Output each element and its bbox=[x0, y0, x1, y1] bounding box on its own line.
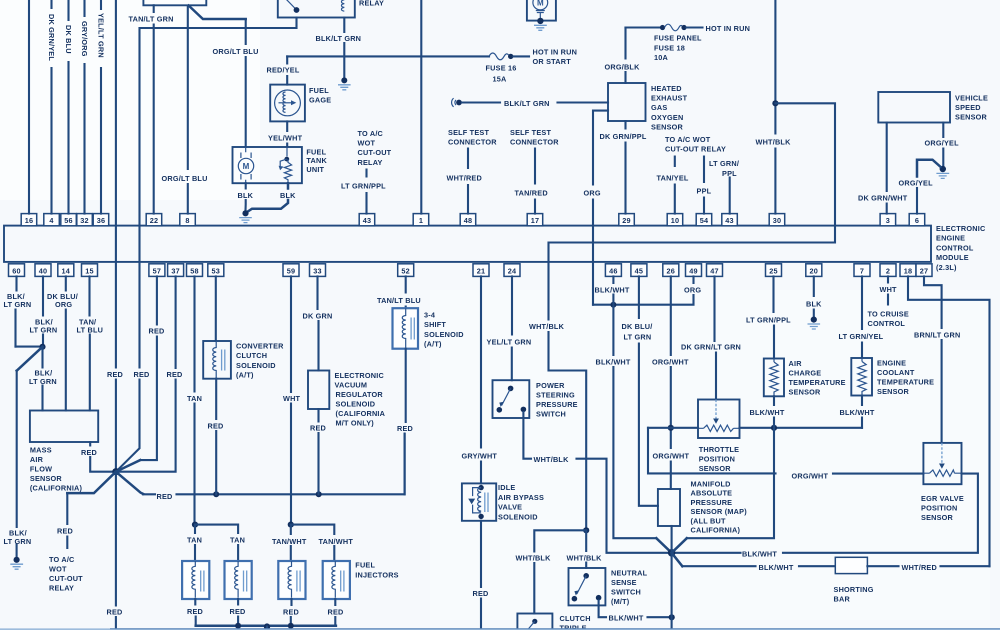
svg-text:15: 15 bbox=[85, 266, 94, 275]
fuel gage U1 box bbox=[270, 85, 305, 122]
svg-text:43: 43 bbox=[363, 216, 372, 225]
svg-text:YEL/LT GRN: YEL/LT GRN bbox=[96, 13, 105, 58]
svg-text:INJECTORS: INJECTORS bbox=[355, 571, 398, 580]
svg-text:2: 2 bbox=[886, 266, 890, 275]
svg-text:VALVE: VALVE bbox=[498, 503, 522, 512]
svg-text:40: 40 bbox=[39, 266, 48, 275]
svg-text:YEL/LT GRN: YEL/LT GRN bbox=[487, 337, 532, 346]
ECM connector pins row 1 (top) bbox=[21, 214, 37, 226]
IAB clamp diode bbox=[473, 488, 482, 513]
junction dot NSS branch bbox=[583, 527, 589, 533]
wire RED injector 1 to bus bbox=[194, 599, 196, 626]
svg-text:48: 48 bbox=[464, 216, 473, 225]
svg-text:BRN/LT GRN: BRN/LT GRN bbox=[914, 331, 960, 340]
wire TAN/LT BLU pin15 into MAF bbox=[88, 276, 90, 410]
svg-text:46: 46 bbox=[609, 266, 618, 275]
label FUSE 16 15A bbox=[486, 64, 517, 84]
wire pin32 GRY/ORG bbox=[83, 0, 85, 214]
wire RED star down to page edge bbox=[115, 472, 117, 630]
label FUEL INJECTORS bbox=[355, 561, 398, 580]
svg-text:GAGE: GAGE bbox=[309, 96, 331, 105]
svg-text:26: 26 bbox=[667, 266, 676, 275]
svg-text:TAN/LT BLU: TAN/LT BLU bbox=[377, 296, 421, 305]
svg-text:LT GRN/PPL: LT GRN/PPL bbox=[341, 182, 386, 191]
motor M2 box (cut at top) bbox=[527, 0, 556, 21]
junction dot injector pair 3/4 bbox=[288, 522, 294, 528]
svg-text:SENSOR: SENSOR bbox=[921, 513, 954, 522]
svg-text:BLK/LT GRN: BLK/LT GRN bbox=[316, 34, 362, 43]
svg-text:22: 22 bbox=[150, 216, 159, 225]
wire WHT/BLK PSP to X junction bbox=[523, 412, 668, 553]
label SELF TEST CONNECTOR 1 bbox=[448, 128, 497, 147]
wire X junction south drop bbox=[671, 553, 673, 630]
fuel injector 1 box bbox=[182, 561, 209, 599]
svg-text:16: 16 bbox=[25, 216, 34, 225]
junction node A (pins 60+40) bbox=[16, 346, 43, 348]
wire WHT pin2 to cruise control bbox=[887, 276, 889, 304]
svg-text:10A: 10A bbox=[654, 53, 669, 62]
ground G1 below relay coil bbox=[341, 77, 347, 83]
svg-text:CUT-OUT: CUT-OUT bbox=[358, 148, 392, 157]
svg-text:25: 25 bbox=[769, 266, 778, 275]
label LT GRN/ PPL bbox=[709, 159, 739, 178]
svg-text:SOLENOID: SOLENOID bbox=[236, 361, 276, 370]
svg-text:EXHAUST: EXHAUST bbox=[651, 94, 688, 103]
wire WHT/BLK riser to pin30 bbox=[774, 0, 776, 214]
label SHORTING BAR bbox=[834, 585, 874, 604]
svg-text:WHT: WHT bbox=[283, 394, 301, 403]
svg-text:PPL: PPL bbox=[697, 187, 712, 196]
wire to HEGO left pin bbox=[558, 101, 609, 103]
svg-text:CONVERTER: CONVERTER bbox=[236, 341, 284, 350]
svg-text:DK GRN/YEL: DK GRN/YEL bbox=[47, 14, 56, 61]
svg-text:4: 4 bbox=[49, 216, 54, 225]
wire DK BLU/LT GRN pin45 to MAP bbox=[639, 276, 658, 505]
label FUEL GAGE bbox=[309, 86, 331, 105]
junction dot on X drop bbox=[669, 614, 675, 620]
svg-text:15A: 15A bbox=[493, 75, 508, 84]
label VEHICLE SPEED SENSOR bbox=[955, 93, 988, 121]
wire BLK/WHT X to shorting bar bbox=[672, 553, 683, 566]
wire RED below 3-4 solenoid bbox=[405, 349, 406, 495]
svg-text:CHARGE: CHARGE bbox=[789, 369, 822, 378]
svg-text:CONTROL: CONTROL bbox=[936, 243, 974, 252]
svg-text:29: 29 bbox=[622, 216, 631, 225]
svg-text:(ALL BUT: (ALL BUT bbox=[691, 516, 726, 525]
ground G6 pin20 bbox=[811, 317, 817, 323]
svg-text:WHT/RED: WHT/RED bbox=[902, 563, 937, 572]
wire WHT/BLK to clutch switch bbox=[534, 530, 586, 613]
wire WHT/RED to pin48 bbox=[467, 149, 469, 214]
fuse panel fuse18 feed line bbox=[626, 26, 661, 28]
svg-text:57: 57 bbox=[153, 266, 162, 275]
wire BRN/LT GRN pin27 to EGR bbox=[924, 276, 942, 443]
svg-text:SHIFT: SHIFT bbox=[424, 320, 446, 329]
3-4 shift solenoid box bbox=[393, 308, 419, 349]
wire BLK/WHT NSS to X drop bbox=[599, 600, 669, 617]
wire BLK/WHT ECT to return rail bbox=[861, 396, 863, 428]
wire ORG/LT BLU to pin8 bbox=[187, 6, 189, 214]
label MASS AIR FLOW SENSOR (CALIFORNIA) bbox=[30, 446, 83, 493]
junction dot ACT return bbox=[771, 425, 777, 431]
svg-text:SHORTING: SHORTING bbox=[834, 585, 874, 594]
svg-text:BLK/WHT: BLK/WHT bbox=[750, 408, 785, 417]
svg-text:LT BLU: LT BLU bbox=[77, 326, 104, 335]
label TO A/C WOT CUT-OUT RELAY (right) bbox=[665, 135, 726, 154]
svg-text:8: 8 bbox=[185, 216, 189, 225]
svg-text:STEERING: STEERING bbox=[536, 391, 575, 400]
svg-text:RED: RED bbox=[310, 423, 326, 432]
svg-text:TO A/C: TO A/C bbox=[49, 555, 75, 564]
svg-text:53: 53 bbox=[212, 266, 221, 275]
X junction node C (signal return common) bbox=[668, 549, 676, 557]
neutral sense switch box bbox=[569, 568, 606, 605]
wire PPL to pin54 bbox=[703, 157, 705, 214]
wire TAN to injector 2 bbox=[195, 525, 238, 561]
svg-text:CALIFORNIA): CALIFORNIA) bbox=[691, 526, 741, 535]
svg-text:CLUTCH: CLUTCH bbox=[560, 614, 591, 623]
svg-text:DK GRN: DK GRN bbox=[303, 311, 333, 320]
svg-text:RED: RED bbox=[107, 608, 123, 617]
label MANIFOLD ABSOLUTE PRESSURE SENSOR (MAP) (ALL BUT CALIFORNIA) bbox=[691, 480, 748, 535]
svg-text:TAN: TAN bbox=[187, 394, 202, 403]
svg-text:(A/T): (A/T) bbox=[236, 371, 254, 380]
svg-text:SENSOR: SENSOR bbox=[30, 474, 63, 483]
svg-text:24: 24 bbox=[508, 266, 517, 275]
svg-text:WOT: WOT bbox=[358, 139, 376, 148]
svg-text:ORG/WHT: ORG/WHT bbox=[792, 472, 829, 481]
svg-text:37: 37 bbox=[171, 266, 180, 275]
wire RED injector 3 to bus bbox=[290, 599, 293, 626]
wire pin18 to shorting bar WHT/RED bbox=[908, 276, 990, 566]
svg-text:SENSOR: SENSOR bbox=[651, 122, 684, 131]
svg-text:LT GRN/YEL: LT GRN/YEL bbox=[839, 332, 884, 341]
clutch triple switch box (cut at bottom) bbox=[517, 614, 552, 630]
svg-text:SENSOR: SENSOR bbox=[789, 388, 822, 397]
wire BLK/WHT pin46 down to X junction bbox=[613, 276, 656, 538]
svg-text:WHT/BLK: WHT/BLK bbox=[534, 455, 570, 464]
svg-text:TAN/WHT: TAN/WHT bbox=[272, 537, 307, 546]
svg-text:DK GRN/LT GRN: DK GRN/LT GRN bbox=[681, 343, 741, 352]
label NEUTRAL SENSE SWITCH (M/T) bbox=[611, 569, 648, 607]
wire MAP to X junction bbox=[671, 526, 673, 553]
svg-text:VEHICLE: VEHICLE bbox=[955, 93, 988, 102]
svg-text:CUT-OUT RELAY: CUT-OUT RELAY bbox=[665, 145, 726, 154]
svg-text:SOLENOID: SOLENOID bbox=[336, 400, 376, 409]
svg-text:HOT IN RUN: HOT IN RUN bbox=[533, 48, 578, 57]
svg-text:32: 32 bbox=[80, 216, 89, 225]
svg-text:RED: RED bbox=[81, 448, 97, 457]
junction dot WHT/BLK branch bbox=[772, 100, 778, 106]
svg-text:PPL: PPL bbox=[722, 169, 737, 178]
svg-text:49: 49 bbox=[689, 266, 698, 275]
svg-text:BLK: BLK bbox=[280, 191, 296, 200]
svg-text:PRESSURE: PRESSURE bbox=[691, 498, 733, 507]
svg-text:RED: RED bbox=[473, 589, 489, 598]
svg-text:RED: RED bbox=[283, 607, 299, 616]
svg-text:TAN/YEL: TAN/YEL bbox=[657, 174, 689, 183]
svg-text:FUEL: FUEL bbox=[355, 561, 375, 570]
wire GRY/WHT pin21 to IAB solenoid bbox=[480, 276, 482, 483]
label DK BLU/ ORG bbox=[47, 292, 78, 309]
svg-text:FUSE PANEL: FUSE PANEL bbox=[654, 34, 702, 43]
fuse F2 10A squiggle bbox=[660, 25, 665, 30]
wire DK GRN/LT GRN pin47 to TPS bbox=[715, 276, 717, 399]
svg-text:ORG/YEL: ORG/YEL bbox=[899, 178, 934, 187]
label TAN/ LT BLU bbox=[77, 317, 104, 334]
svg-text:WHT/BLK: WHT/BLK bbox=[756, 138, 792, 147]
svg-text:TAN: TAN bbox=[230, 535, 245, 544]
wire long RED riser x116 bbox=[115, 0, 117, 472]
svg-text:SELF TEST: SELF TEST bbox=[448, 128, 489, 137]
wire to pin1 bbox=[420, 0, 422, 214]
wire RED star to A/C WOT cutout relay bbox=[67, 472, 116, 493]
wire pin56 DK BLU bbox=[67, 0, 69, 214]
svg-text:SOLENOID: SOLENOID bbox=[424, 330, 464, 339]
svg-text:SENSE: SENSE bbox=[611, 578, 637, 587]
svg-text:BLK/WHT: BLK/WHT bbox=[595, 285, 630, 294]
label FUEL TANK UNIT bbox=[306, 148, 327, 174]
junction dot TPS wiper bbox=[668, 425, 674, 431]
svg-text:ORG/WHT: ORG/WHT bbox=[653, 451, 690, 460]
wire BLK (pump) to ground bbox=[244, 183, 246, 210]
svg-text:RED: RED bbox=[107, 370, 123, 379]
svg-text:ORG/LT BLU: ORG/LT BLU bbox=[213, 47, 259, 56]
scan edge artifact at bottom bbox=[0, 628, 1000, 630]
wire WHT/BLK branch through ECM box to PSP bbox=[549, 103, 836, 527]
self test connector 1 pigtail bbox=[452, 98, 456, 107]
svg-text:TAN/LT GRN: TAN/LT GRN bbox=[129, 15, 174, 24]
svg-text:CONNECTOR: CONNECTOR bbox=[510, 138, 559, 147]
svg-text:OXYGEN: OXYGEN bbox=[651, 113, 683, 122]
svg-text:BLK/WHT: BLK/WHT bbox=[596, 357, 631, 366]
svg-text:WHT/BLK: WHT/BLK bbox=[567, 554, 603, 563]
svg-text:RED: RED bbox=[134, 370, 150, 379]
svg-text:LT GRN: LT GRN bbox=[30, 326, 58, 335]
svg-text:LT GRN: LT GRN bbox=[4, 537, 32, 546]
svg-text:ELECTRONIC: ELECTRONIC bbox=[936, 224, 986, 233]
wire RED below IAB off-page bbox=[480, 521, 482, 630]
relay K1 switch contact bbox=[284, 0, 296, 9]
svg-text:TAN: TAN bbox=[187, 535, 202, 544]
fuel tank unit box bbox=[233, 147, 302, 183]
svg-text:3-4: 3-4 bbox=[424, 311, 436, 320]
wire DK GRN/PPL HEGO to pin29 bbox=[624, 121, 626, 214]
wire RED/YEL drop to fuel gage bbox=[286, 56, 288, 84]
HEGO sensor box bbox=[608, 83, 646, 121]
svg-text:(CALIFORNIA): (CALIFORNIA) bbox=[30, 484, 83, 493]
wire ORG from HEGO down through ECM bbox=[593, 111, 608, 305]
svg-text:TAN/RED: TAN/RED bbox=[515, 189, 548, 198]
wire RED bus to solenoids bbox=[116, 472, 143, 494]
wire BLK (sender) to ground bbox=[246, 183, 289, 213]
svg-text:TO CRUISE: TO CRUISE bbox=[868, 310, 909, 319]
wire TAN/LT BLU pin52 to 3-4 shift solenoid bbox=[405, 276, 407, 308]
junction dot EVR RED bbox=[316, 491, 322, 497]
svg-text:RED: RED bbox=[167, 370, 183, 379]
svg-text:21: 21 bbox=[477, 266, 486, 275]
wire TAN/LT GRN to pin22 bbox=[153, 5, 155, 213]
ground G5 left bbox=[14, 557, 20, 563]
MAF sensor box bbox=[30, 411, 98, 443]
svg-text:BLK: BLK bbox=[238, 191, 254, 200]
power steering pressure switch box bbox=[493, 380, 530, 418]
wire ORG/YEL VSS to ground bbox=[942, 123, 944, 167]
label TO CRUISE CONTROL bbox=[868, 310, 909, 329]
wire TAN pin58 down bbox=[193, 276, 195, 521]
wire RED injector return bus bbox=[196, 625, 336, 628]
svg-text:56: 56 bbox=[64, 216, 73, 225]
wire pin16 vertical bbox=[28, 0, 30, 214]
svg-text:DK BLU/: DK BLU/ bbox=[622, 322, 653, 331]
fuel pump motor M with brackets bbox=[241, 147, 251, 183]
svg-text:RED: RED bbox=[149, 327, 165, 336]
wire RED MAF output bbox=[90, 442, 116, 472]
TPS throttle position sensor box bbox=[698, 400, 740, 439]
ground G4 VSS bbox=[940, 166, 946, 172]
svg-text:WHT/RED: WHT/RED bbox=[447, 174, 482, 183]
svg-text:WOT: WOT bbox=[49, 565, 67, 574]
wire DK GRN pin33 to EVR solenoid bbox=[318, 276, 319, 370]
svg-text:M/T ONLY): M/T ONLY) bbox=[336, 419, 375, 428]
svg-text:GAS: GAS bbox=[651, 103, 667, 112]
svg-text:HEATED: HEATED bbox=[651, 84, 682, 93]
wire YEL/LT GRN pin24 to PSP switch bbox=[511, 276, 513, 380]
svg-text:ELECTRONIC: ELECTRONIC bbox=[335, 371, 385, 380]
CCS coil element bbox=[213, 341, 216, 379]
svg-text:UNIT: UNIT bbox=[306, 165, 324, 174]
svg-text:M: M bbox=[537, 0, 544, 8]
svg-text:RED: RED bbox=[57, 527, 73, 536]
svg-text:33: 33 bbox=[313, 266, 322, 275]
svg-text:SELF TEST: SELF TEST bbox=[510, 128, 551, 137]
svg-text:14: 14 bbox=[62, 266, 71, 275]
svg-text:43: 43 bbox=[725, 216, 734, 225]
svg-text:SWITCH: SWITCH bbox=[536, 410, 566, 419]
VSS vehicle speed sensor box bbox=[878, 92, 950, 123]
svg-text:58: 58 bbox=[190, 266, 199, 275]
svg-text:BLK/WHT: BLK/WHT bbox=[609, 613, 644, 622]
wire EGR right terminal to X junction BLK/WHT bbox=[675, 474, 978, 553]
svg-text:RED: RED bbox=[397, 424, 413, 433]
svg-text:52: 52 bbox=[401, 266, 410, 275]
svg-text:TEMPERATURE: TEMPERATURE bbox=[789, 378, 846, 387]
svg-text:CUT-OUT: CUT-OUT bbox=[49, 574, 83, 583]
svg-text:36: 36 bbox=[97, 216, 106, 225]
fuel injector 3 box bbox=[278, 561, 305, 599]
svg-text:TO A/C WOT: TO A/C WOT bbox=[665, 135, 711, 144]
wire BLK/LT GRN relay coil feed bbox=[343, 18, 345, 78]
svg-text:BLK/WHT: BLK/WHT bbox=[840, 408, 875, 417]
svg-text:(A/T): (A/T) bbox=[424, 340, 442, 349]
ECM connector pins row 2 (bottom) bbox=[9, 264, 25, 277]
svg-text:EGR VALVE: EGR VALVE bbox=[921, 494, 964, 503]
svg-text:AIR: AIR bbox=[30, 455, 44, 464]
EVR solenoid box bbox=[308, 371, 329, 410]
svg-text:60: 60 bbox=[12, 266, 21, 275]
svg-text:NEUTRAL: NEUTRAL bbox=[611, 569, 648, 578]
wire LT GRN/PPL to pin43b bbox=[729, 178, 731, 214]
svg-text:ORG/BLK: ORG/BLK bbox=[605, 63, 641, 72]
wire LT GRN/PPL to pin43a bbox=[365, 170, 367, 214]
wire ORG link to pin49 with junction to pin46 wire bbox=[593, 276, 694, 304]
junction dot pin46 wire bbox=[610, 302, 616, 308]
label DK BLU/ LT GRN bbox=[622, 322, 653, 342]
wire RED below CCS bbox=[215, 379, 217, 495]
svg-text:3: 3 bbox=[886, 216, 890, 225]
svg-text:TANK: TANK bbox=[306, 156, 327, 165]
svg-text:CLUTCH: CLUTCH bbox=[236, 351, 267, 360]
svg-text:SOLENOID: SOLENOID bbox=[498, 512, 538, 521]
svg-text:FUEL: FUEL bbox=[306, 148, 326, 157]
svg-text:ORG: ORG bbox=[684, 285, 701, 294]
label BLK/ LT GRN bbox=[29, 369, 57, 386]
wire BLK/LT GRN into MAF bbox=[41, 347, 43, 411]
ground G2 fuel tank bbox=[242, 210, 248, 216]
fuel injector 2 box bbox=[225, 561, 252, 599]
wire DK BLU/ORG pin14 into MAF bbox=[65, 276, 67, 410]
svg-text:MASS: MASS bbox=[30, 446, 52, 455]
svg-text:BLK/LT GRN: BLK/LT GRN bbox=[504, 99, 550, 108]
svg-text:RED/YEL: RED/YEL bbox=[267, 66, 300, 75]
svg-text:LT GRN/: LT GRN/ bbox=[709, 159, 739, 168]
ECM module box bbox=[4, 226, 931, 262]
svg-text:TAN/WHT: TAN/WHT bbox=[319, 537, 354, 546]
wire TAN/WHT to injector 4 bbox=[291, 525, 335, 561]
svg-text:MANIFOLD: MANIFOLD bbox=[691, 480, 731, 489]
svg-text:LT GRN: LT GRN bbox=[624, 333, 652, 342]
svg-text:GRY/WHT: GRY/WHT bbox=[462, 451, 498, 460]
svg-text:M: M bbox=[243, 162, 250, 171]
svg-text:RELAY: RELAY bbox=[49, 584, 74, 593]
junction dot bus drop off-page bbox=[264, 623, 270, 629]
svg-text:ABSOLUTE: ABSOLUTE bbox=[691, 489, 733, 498]
fuel injector 4 box bbox=[323, 561, 350, 599]
svg-text:47: 47 bbox=[710, 266, 719, 275]
svg-text:SPEED: SPEED bbox=[955, 103, 981, 112]
wire HOT feed horizontal y56 bbox=[287, 55, 489, 57]
label SELF TEST CONNECTOR 2 bbox=[510, 128, 559, 147]
svg-text:RED: RED bbox=[187, 607, 203, 616]
svg-text:45: 45 bbox=[635, 266, 644, 275]
svg-text:FLOW: FLOW bbox=[30, 465, 52, 474]
svg-text:SENSOR (MAP): SENSOR (MAP) bbox=[691, 507, 748, 516]
svg-text:HOT IN RUN: HOT IN RUN bbox=[706, 24, 751, 33]
svg-text:54: 54 bbox=[700, 216, 709, 225]
svg-text:RED: RED bbox=[230, 607, 246, 616]
wire LT GRN/PPL pin25 to ACT bbox=[772, 276, 775, 358]
svg-text:OR START: OR START bbox=[533, 57, 572, 66]
wire ORG/YEL pigtail to pin6 bbox=[917, 160, 941, 177]
svg-text:SENSOR: SENSOR bbox=[955, 113, 988, 122]
wire pin4 DK GRN/YEL bbox=[50, 0, 52, 214]
svg-text:(CALIFORNIA: (CALIFORNIA bbox=[336, 409, 386, 418]
svg-text:RED: RED bbox=[208, 421, 224, 430]
wire LT GRN/YEL pin7 to ECT bbox=[861, 276, 863, 358]
wire TPS return rail bbox=[648, 427, 862, 429]
wire WHT/BLK to neutral sense switch bbox=[585, 530, 587, 568]
wire TAN/WHT to injector 3 bbox=[290, 525, 292, 561]
wire RED pin37 into star bbox=[116, 276, 176, 471]
svg-text:FUSE 16: FUSE 16 bbox=[486, 64, 517, 73]
svg-text:ORG: ORG bbox=[584, 189, 601, 198]
ACT air charge temperature sensor box bbox=[764, 359, 784, 397]
svg-text:PRESSURE: PRESSURE bbox=[536, 400, 578, 409]
label 3-4 SHIFT SOLENOID (A/T) bbox=[424, 311, 464, 349]
wire TAN/RED to pin17 bbox=[534, 149, 536, 214]
svg-text:59: 59 bbox=[287, 266, 296, 275]
label BLK/ LT GRN bbox=[4, 529, 32, 546]
